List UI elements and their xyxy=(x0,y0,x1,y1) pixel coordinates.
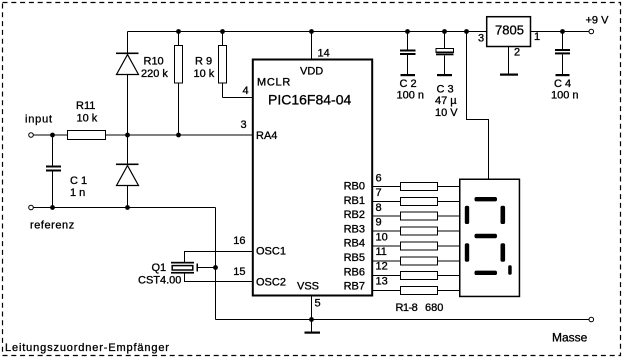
svg-text:VSS: VSS xyxy=(297,281,319,293)
display 7-segment xyxy=(460,179,520,296)
node Masse terminal xyxy=(552,317,594,344)
ground C3 xyxy=(437,74,452,76)
label schematic title xyxy=(5,342,170,354)
svg-text:C 3: C 3 xyxy=(437,84,454,96)
svg-text:3: 3 xyxy=(241,119,247,131)
capacitor C3 xyxy=(435,32,458,120)
node rail junction R10 xyxy=(176,29,181,34)
svg-text:Q1: Q1 xyxy=(152,262,167,274)
node junction R10 input xyxy=(176,133,181,138)
svg-text:7: 7 xyxy=(376,187,382,199)
svg-text:RB2: RB2 xyxy=(344,209,365,221)
svg-text:47 µ: 47 µ xyxy=(435,95,457,107)
svg-text:10 k: 10 k xyxy=(77,113,98,125)
svg-text:Masse: Masse xyxy=(552,331,588,345)
node rail junction C3 xyxy=(442,29,447,34)
resistor R9 xyxy=(194,32,227,98)
svg-text:RB6: RB6 xyxy=(344,266,365,278)
node rail junction display feed xyxy=(464,29,469,34)
node junction VSS ground rail xyxy=(309,317,314,322)
resistor R4 xyxy=(372,217,460,236)
label resistor array value xyxy=(396,302,444,314)
node rail junction C2 xyxy=(405,29,410,34)
svg-text:100 n: 100 n xyxy=(397,90,425,102)
svg-text:10 V: 10 V xyxy=(435,107,458,119)
svg-text:VDD: VDD xyxy=(300,66,323,78)
resistor R11 xyxy=(33,100,105,140)
regulator 7805 xyxy=(478,17,540,47)
resistor R3 xyxy=(372,202,460,220)
svg-text:9: 9 xyxy=(376,217,382,229)
svg-text:12: 12 xyxy=(376,261,388,273)
svg-text:1: 1 xyxy=(534,31,540,43)
wire +5V top rail xyxy=(128,31,487,33)
node rail junction pin14 xyxy=(309,29,314,34)
node junction diode referenz xyxy=(125,205,130,210)
svg-text:10 k: 10 k xyxy=(194,68,215,80)
svg-text:R11: R11 xyxy=(76,100,95,112)
wire referenz line xyxy=(33,207,215,209)
wire pin16 OSC1 xyxy=(185,235,254,262)
node junction diode input xyxy=(125,133,130,138)
capacitor C4 xyxy=(551,32,579,102)
wire display anode feed xyxy=(467,32,489,180)
svg-text:R10: R10 xyxy=(144,56,164,68)
resistor R10 xyxy=(141,32,183,136)
svg-text:OSC1: OSC1 xyxy=(256,246,286,258)
resistor R5 xyxy=(372,231,460,250)
ground VSS xyxy=(305,320,321,334)
svg-text:OSC2: OSC2 xyxy=(256,277,286,289)
capacitor C1 xyxy=(46,135,87,208)
wire pin15 OSC2 xyxy=(185,266,254,282)
node input terminal xyxy=(25,114,53,138)
resistor R7 xyxy=(372,261,460,280)
svg-text:Leitungszuordner-Empfänger: Leitungszuordner-Empfänger xyxy=(5,342,170,354)
wire pin4 MCLR xyxy=(223,85,254,98)
svg-text:RB4: RB4 xyxy=(344,238,365,250)
svg-text:RA4: RA4 xyxy=(256,130,277,142)
resistor R6 xyxy=(372,246,460,265)
svg-text:3: 3 xyxy=(478,33,484,45)
svg-text:RB0: RB0 xyxy=(344,181,365,193)
svg-text:680: 680 xyxy=(425,302,443,314)
svg-text:CST4.00: CST4.00 xyxy=(138,275,181,287)
diode D1 xyxy=(116,32,139,136)
svg-text:R1-8: R1-8 xyxy=(396,302,418,314)
svg-text:RB1: RB1 xyxy=(344,195,365,207)
svg-text:13: 13 xyxy=(376,275,388,287)
resistor R1 xyxy=(372,173,460,191)
svg-text:16: 16 xyxy=(233,235,245,247)
wire ground rail xyxy=(216,319,590,321)
node rail junction R9 xyxy=(220,29,225,34)
svg-text:1 n: 1 n xyxy=(70,187,85,199)
svg-text:5: 5 xyxy=(315,298,321,310)
svg-text:RB3: RB3 xyxy=(344,223,365,235)
svg-text:PIC16F84-04: PIC16F84-04 xyxy=(268,92,351,108)
svg-text:C 4: C 4 xyxy=(554,78,571,90)
node junction C4 xyxy=(560,29,565,34)
node junction C1 input xyxy=(50,133,55,138)
wire pin2 7805 xyxy=(509,47,521,74)
diode D2 xyxy=(116,135,139,208)
svg-text:15: 15 xyxy=(233,266,245,278)
node junction resonator ground xyxy=(213,265,218,270)
svg-text:100 n: 100 n xyxy=(551,90,579,102)
capacitor C2 xyxy=(397,32,425,102)
svg-text:RB5: RB5 xyxy=(344,252,365,264)
svg-text:4: 4 xyxy=(243,85,249,97)
svg-text:C 1: C 1 xyxy=(70,175,87,187)
svg-text:referenz: referenz xyxy=(30,220,75,232)
svg-text:RB7: RB7 xyxy=(344,281,365,293)
resonator Q1 xyxy=(138,262,216,287)
svg-text:6: 6 xyxy=(376,173,382,185)
node +9V terminal xyxy=(586,15,610,34)
wire 7805 output to +9V terminal xyxy=(531,31,589,33)
svg-text:C 2: C 2 xyxy=(400,78,417,90)
svg-text:10: 10 xyxy=(376,231,388,243)
node referenz terminal xyxy=(29,205,75,231)
svg-text:7805: 7805 xyxy=(495,23,524,38)
ground C2 xyxy=(401,74,416,76)
svg-text:14: 14 xyxy=(318,48,330,60)
svg-text:+9 V: +9 V xyxy=(586,15,610,27)
wire input line to RA4 pin3 xyxy=(106,119,254,135)
svg-text:2: 2 xyxy=(514,47,520,59)
svg-text:input: input xyxy=(25,114,53,126)
resistor R2 xyxy=(372,187,460,205)
node junction C1 referenz xyxy=(50,205,55,210)
svg-text:220 k: 220 k xyxy=(141,68,168,80)
svg-text:11: 11 xyxy=(376,246,387,258)
wire pin5 VSS stub xyxy=(312,296,321,320)
svg-text:8: 8 xyxy=(376,202,382,214)
ground 7805 xyxy=(500,74,518,76)
svg-text:R 9: R 9 xyxy=(195,56,212,68)
resistor R8 xyxy=(372,275,460,294)
svg-text:MCLR: MCLR xyxy=(257,77,291,89)
IC U1 PIC16F84-04 xyxy=(253,60,372,296)
wire pin14 VDD stub xyxy=(312,32,330,61)
ground C4 xyxy=(556,74,570,76)
wire referenz down to ground rail xyxy=(215,208,217,320)
